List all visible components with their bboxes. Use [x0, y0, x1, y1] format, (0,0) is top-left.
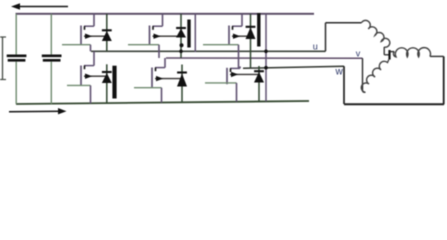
- wire Q1 (top, phase U) drain step: [84, 25, 94, 27]
- transistor Q5 (top, phase W) arrow: [233, 34, 240, 39]
- svg-text:w: w: [335, 67, 344, 78]
- node junction V-diode on U line: [179, 50, 183, 54]
- wire Q6 (bottom, phase V) drain step: [155, 67, 165, 69]
- wire phase W node line: [243, 66, 344, 68]
- wire U coil tail right: [384, 54, 389, 56]
- transistor Q4 (bottom, phase U) gate bar: [80, 66, 82, 86]
- wire U top run: [326, 22, 362, 24]
- transistor Q2 (bottom, phase W) arrow: [231, 72, 238, 77]
- transistor Q2 (bottom, phase W) gate bar: [226, 68, 228, 84]
- diode Q4 (bottom, phase U) triangle: [102, 73, 112, 83]
- diode Q4 (bottom, phase U) cathode bar: [102, 71, 112, 73]
- inductor winding U (diagonal coil): [362, 20, 390, 47]
- node junction x266 on U line: [264, 50, 268, 54]
- wire Q1 (top, phase U) source vertical: [90, 45, 92, 52]
- wire positive DC rail (top bus): [16, 13, 315, 15]
- wire Q2 (bottom, phase W) gate lead / source stub: [205, 82, 237, 84]
- transistor Q5 (top, phase W) drain channel tick: [232, 26, 234, 30]
- transistor Q6 (bottom, phase V) gate bar: [151, 68, 153, 88]
- wire Q2 (bottom, phase W) drain step: [230, 67, 240, 69]
- wire top current arrow shaft: [16, 6, 68, 8]
- tick bottom of DC source: [0, 79, 6, 81]
- tick top of DC source: [0, 36, 6, 38]
- diode Q2 (bottom, phase W) cathode bar: [254, 70, 264, 72]
- inductor winding W (horizontal coil): [393, 48, 430, 57]
- wire Q3 (top, phase V) body line: [153, 35, 182, 37]
- arrowhead pointing left (top): [11, 3, 20, 10]
- wire Q6 (bottom, phase V) source vertical: [161, 88, 163, 103]
- transistor Q1 (top, phase U) gate bar: [80, 26, 82, 46]
- diode Q6 (bottom, phase V) triangle: [177, 74, 187, 87]
- capacitor C1 bottom plate: [8, 59, 26, 62]
- thick bar beside Q5 diode: [257, 13, 260, 47]
- diode Q1 (top, phase U) triangle: [102, 31, 112, 41]
- wire Q5 (top, phase W) source vertical: [238, 45, 240, 68]
- wire motor box right: [443, 56, 445, 104]
- wire Q4 (bottom, phase U) gate lead / source stub: [67, 84, 91, 86]
- wire left edge vertical (DC source): [2, 37, 4, 80]
- wire motor box bottom: [344, 103, 444, 105]
- diode Q1 (top, phase U) FWD vertical: [106, 14, 108, 52]
- wire W drop (motor box left): [343, 66, 345, 104]
- diode Q3 (top, phase V) triangle: [176, 29, 186, 38]
- wire Q2 (bottom, phase W) drain vertical: [239, 66, 241, 68]
- arrowhead pointing right (bottom): [58, 108, 67, 114]
- capacitor C2 bottom plate: [43, 59, 61, 62]
- wire Q3 (top, phase V) drain step: [153, 25, 163, 27]
- transistor Q6 (bottom, phase V) drain channel tick: [155, 68, 157, 72]
- diode Q5 (top, phase W) cathode bar: [246, 26, 256, 28]
- diode Q5 (top, phase W) triangle: [246, 27, 256, 39]
- wire C2 bottom lead: [50, 62, 52, 104]
- wire phase V node line: [166, 57, 363, 59]
- transistor Q1 (top, phase U) arrow: [85, 34, 92, 39]
- wire Q4 (bottom, phase U) body line: [84, 75, 107, 77]
- diode Q1 (top, phase U) cathode bar: [102, 29, 112, 31]
- wire Q3 (top, phase V) drain vertical: [162, 14, 164, 26]
- wire Q3 (top, phase V) gate lead / source stub: [128, 44, 159, 46]
- wire star to W coil: [390, 51, 395, 53]
- wire W coil to right side: [430, 55, 444, 57]
- capacitor C1 top plate: [7, 54, 27, 57]
- wire vertical link at x=266: [265, 14, 267, 102]
- wire Q2 (bottom, phase W) source vertical: [236, 83, 238, 102]
- thick bar beside Q3 diode: [187, 20, 190, 48]
- wire phase U node line: [91, 50, 326, 52]
- transistor Q4 (bottom, phase U) drain channel tick: [84, 66, 86, 70]
- inductor winding V (diagonal coil): [361, 60, 388, 93]
- wire U riser: [325, 23, 327, 52]
- diode Q6 (bottom, phase V) cathode bar: [177, 71, 187, 73]
- wire negative DC rail (bottom bus): [16, 101, 309, 104]
- wire U coil tail down: [383, 47, 385, 55]
- wire Q1 (top, phase U) body line: [84, 35, 107, 37]
- transistor Q1 (top, phase U) drain channel tick: [84, 26, 86, 30]
- wire Q2 (bottom, phase W) body line: [230, 73, 259, 75]
- wire Q4 (bottom, phase U) drain vertical: [93, 51, 95, 65]
- wire C2 top lead: [50, 14, 52, 55]
- wire C1 top lead: [15, 14, 17, 55]
- wire Q1 (top, phase U) drain vertical: [93, 14, 95, 26]
- diode Q2 (bottom, phase W) triangle: [254, 72, 264, 83]
- transistor Q5 (top, phase W) gate bar: [228, 26, 230, 46]
- transistor Q4 (bottom, phase U) arrow: [85, 74, 92, 79]
- diode Q6 (bottom, phase V) FWD vertical: [181, 65, 183, 103]
- wire Q5 (top, phase W) drain step: [232, 25, 242, 27]
- diode Q5 (top, phase W) FWD vertical: [250, 14, 252, 68]
- wire Q6 (bottom, phase V) drain vertical: [164, 58, 166, 68]
- wire Q4 (bottom, phase U) drain step: [84, 65, 94, 67]
- wire Q5 (top, phase W) body line: [232, 35, 251, 37]
- thick bar beside Q4 diode: [112, 66, 116, 99]
- wire vertical link at x=195: [194, 14, 196, 52]
- wire Q6 (bottom, phase V) gate lead / source stub: [134, 87, 162, 89]
- transistor Q3 (top, phase V) arrow: [154, 34, 161, 39]
- svg-text:u: u: [313, 42, 318, 52]
- wire C1 bottom lead: [15, 62, 17, 104]
- wire Q1 (top, phase U) gate lead / source stub: [62, 44, 91, 46]
- wire V drop: [362, 58, 364, 91]
- wire Q5 (top, phase W) drain vertical: [241, 14, 243, 26]
- diode Q3 (top, phase V) cathode bar: [176, 27, 186, 29]
- diode Q3 (top, phase V) FWD vertical: [180, 14, 182, 58]
- capacitor C2 top plate: [42, 54, 62, 57]
- wire Q6 (bottom, phase V) body line: [155, 78, 182, 80]
- diode Q2 (bottom, phase W) FWD vertical: [258, 66, 260, 102]
- node junction Q3 source stub: [180, 43, 184, 47]
- transistor Q2 (bottom, phase W) drain channel tick: [230, 68, 232, 72]
- node junction x266 on W line: [264, 66, 268, 70]
- wire Q4 (bottom, phase U) source vertical: [90, 85, 92, 103]
- wire bottom current arrow shaft: [9, 110, 61, 113]
- wire Q3 (top, phase V) source vertical: [158, 45, 160, 58]
- diode Q4 (bottom, phase U) FWD vertical: [106, 64, 108, 103]
- transistor Q6 (bottom, phase V) arrow: [156, 76, 163, 81]
- node star point bar: [388, 50, 390, 60]
- transistor Q3 (top, phase V) gate bar: [149, 26, 151, 46]
- svg-text:v: v: [356, 49, 361, 59]
- transistor Q3 (top, phase V) drain channel tick: [152, 26, 154, 30]
- wire Q5 (top, phase W) gate lead / source stub: [203, 44, 239, 46]
